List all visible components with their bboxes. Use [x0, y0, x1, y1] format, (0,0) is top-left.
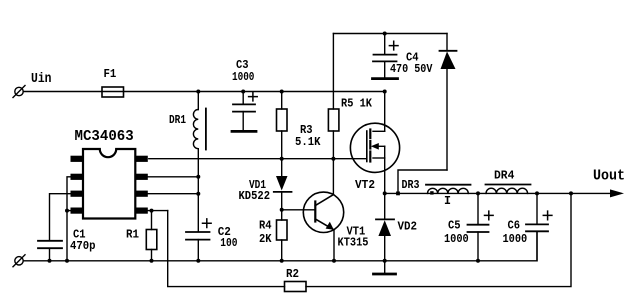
inductor DR1	[193, 92, 206, 150]
node Uout ground terminal	[13, 255, 25, 267]
node square dot switch/DR3	[396, 192, 400, 196]
pin 1 left	[71, 156, 84, 162]
wire base VT1	[282, 209, 315, 211]
svg-text:1000: 1000	[444, 233, 469, 246]
node Uin terminal	[13, 86, 25, 98]
svg-text:1000: 1000	[503, 233, 528, 246]
mosfet VT2	[350, 123, 399, 172]
svg-text:R1: R1	[126, 228, 139, 241]
node dot VD1/R4/base	[280, 208, 284, 212]
inductor DR3	[426, 185, 471, 195]
resistor R2	[285, 282, 307, 292]
node dot R4/ground rail	[280, 259, 284, 263]
wire pin2 left down	[67, 177, 71, 261]
pin 6 right	[135, 191, 148, 197]
capacitor C2	[186, 219, 211, 261]
resistor R1	[146, 211, 157, 261]
svg-text:KT315: KT315	[338, 237, 369, 250]
wire top bootstrap rail	[333, 33, 447, 35]
pin 4 left	[71, 208, 84, 214]
svg-text:R3: R3	[300, 124, 313, 137]
svg-text:I: I	[444, 195, 451, 208]
wire pin4 left	[67, 210, 71, 212]
wire bootstrap to switch node	[398, 170, 447, 193]
svg-text:DR1: DR1	[169, 114, 186, 127]
wire VT2 drain up	[384, 92, 386, 132]
wire ground rail	[23, 231, 537, 260]
arrow Uout	[610, 189, 624, 197]
svg-text:KD522: KD522	[239, 190, 271, 203]
capacitor C6	[526, 193, 552, 260]
svg-text:F1: F1	[104, 67, 117, 81]
ground symbol main	[374, 261, 396, 274]
svg-text:470p: 470p	[70, 240, 96, 253]
node dot R1/ground rail	[150, 259, 154, 263]
resistor R5	[328, 34, 339, 159]
wire R2 to Uout node	[306, 193, 571, 286]
resistor R4	[277, 210, 288, 261]
wire VT1 collector up	[332, 159, 334, 195]
pin 8 right	[135, 156, 148, 162]
diode VD2	[376, 193, 394, 260]
node dot VT2/main rail	[383, 90, 387, 94]
node dot VD2/ground rail	[383, 259, 387, 263]
transistor VT1	[303, 192, 343, 232]
node dot R1 top	[150, 209, 154, 213]
svg-text:Uout: Uout	[593, 168, 625, 185]
node dot C1/ground rail	[48, 259, 52, 263]
capacitor C1	[38, 241, 62, 261]
wire pin2 right	[148, 176, 199, 178]
svg-text:Uin: Uin	[31, 72, 52, 87]
node dot C6/Uout rail	[535, 191, 539, 195]
svg-text:2K: 2K	[259, 233, 272, 246]
fuse F1	[102, 87, 124, 97]
node dot DR1/main	[196, 90, 200, 94]
svg-text:R5 1K: R5 1K	[341, 98, 372, 111]
ground C4	[373, 77, 398, 80]
op-amp U1 MC34063 body	[83, 149, 135, 219]
wire gate lead VT2	[333, 158, 366, 160]
svg-text:VT2: VT2	[355, 179, 375, 192]
node dot R2 vertical/Uout rail	[569, 191, 573, 195]
resistor R3	[277, 92, 288, 159]
node dot C2/ground rail	[196, 259, 200, 263]
node dot DR1/pin2wire	[196, 175, 200, 179]
node dot C3/main	[241, 90, 245, 94]
wire VT1 emitter down	[333, 230, 335, 261]
svg-text:DR4: DR4	[494, 170, 514, 183]
node dot switch node	[383, 191, 387, 195]
svg-text:R2: R2	[286, 268, 299, 281]
pin 3 left	[71, 191, 84, 197]
svg-text:R4: R4	[259, 220, 272, 233]
node dot VT1 emitter/ground rail	[332, 259, 336, 263]
svg-text:C5: C5	[448, 220, 461, 233]
pin 5 right	[135, 208, 148, 214]
ground C3	[232, 130, 256, 133]
node dot pin4/vertical	[65, 209, 69, 213]
wire pin4 right	[148, 210, 168, 212]
svg-text:DR3: DR3	[402, 179, 420, 192]
wire pin3 left to C1	[50, 194, 71, 241]
pin 7 right	[135, 174, 148, 180]
capacitor C5	[468, 193, 494, 260]
svg-text:VD2: VD2	[398, 221, 418, 234]
pin 2 left	[71, 174, 84, 180]
node dot gate node	[331, 157, 335, 161]
inductor DR4	[486, 185, 531, 194]
svg-text:1000: 1000	[232, 71, 254, 84]
wire Uout rail	[385, 192, 612, 194]
diode VD1	[274, 159, 292, 210]
node dot C5/ground rail	[476, 259, 480, 263]
svg-text:MC34063: MC34063	[75, 128, 134, 145]
svg-text:5.1K: 5.1K	[295, 136, 321, 149]
node dot R3/VD1/pin1wire	[280, 157, 284, 161]
capacitor C4	[373, 34, 398, 78]
wire IC pin1 to gate node	[149, 158, 334, 160]
svg-text:470 50V: 470 50V	[390, 63, 432, 76]
capacitor C3	[233, 92, 257, 131]
wire VT2 source down	[384, 158, 386, 193]
svg-text:100: 100	[220, 237, 237, 250]
wire Uin main rail	[23, 91, 385, 93]
node dot C4/top rail	[383, 32, 387, 36]
wire DR1 bottom to C2	[197, 149, 199, 232]
svg-text:C6: C6	[508, 220, 521, 233]
diode bootstrap	[440, 34, 457, 171]
node dot C5/Uout rail	[476, 191, 480, 195]
node dot R3/main	[280, 90, 284, 94]
node dot pinvert/ground rail	[65, 259, 69, 263]
node dot DR1/pin3wire	[196, 192, 200, 196]
wire pin3 right	[148, 193, 199, 195]
wire feedback vertical	[168, 211, 285, 287]
